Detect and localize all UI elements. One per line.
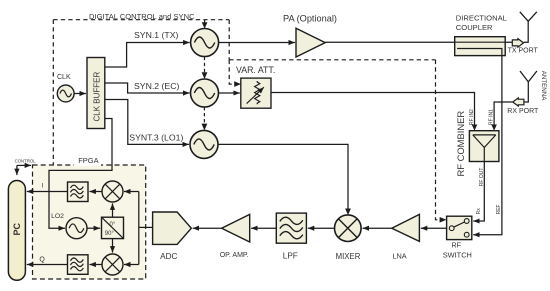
amplifier LNA	[392, 214, 420, 241]
svg-text:VAR. ATT.: VAR. ATT.	[236, 65, 275, 75]
dashed sync SYN.2 to SYNT.3	[203, 107, 205, 124]
dashed digital control bus left edge	[52, 20, 54, 165]
TX PORT arrow	[512, 39, 523, 48]
wire control PC to FPGA	[17, 164, 31, 166]
arrow into VAR ATT control	[234, 81, 241, 87]
svg-text:MIXER: MIXER	[336, 252, 361, 261]
dashed sync SYN.1 to SYN.2	[204, 57, 206, 73]
svg-text:90°: 90°	[105, 231, 115, 237]
mixer MIXER	[335, 215, 362, 242]
wire phase to mixer I	[112, 203, 114, 217]
svg-text:ADC: ADC	[160, 252, 177, 261]
ADC converter	[153, 212, 192, 244]
RX PORT arrow	[513, 98, 524, 106]
wire LNA to mixer	[363, 227, 392, 229]
dashed stub into SYN.1	[204, 20, 206, 23]
wire op amp to ADC	[193, 227, 222, 229]
amplifier OP. AMP.	[222, 214, 250, 242]
wire SYN.1 to PA	[219, 42, 295, 44]
wire ADC into FPGA	[139, 226, 153, 228]
FPGA label background	[74, 157, 101, 167]
synthesizer SYN.1 (TX)	[191, 29, 219, 57]
wire branch to mixer Q	[124, 264, 139, 266]
svg-text:LO2: LO2	[51, 213, 64, 220]
wire FPGA branch vertical	[138, 192, 140, 265]
RX antenna	[520, 71, 537, 82]
amplifier PA	[296, 28, 325, 57]
arrow into combiner RF IN1	[491, 125, 497, 131]
wire mixer Q to filter Q	[89, 264, 101, 266]
svg-text:RF OUT: RF OUT	[479, 168, 485, 187]
dashed bus vertical to RF switch	[436, 60, 441, 220]
svg-text:SWITCH: SWITCH	[443, 250, 472, 259]
wire mixer to LPF	[308, 227, 335, 229]
wire RX port to combiner RF IN1	[494, 102, 513, 126]
wire buffer to SYN.1	[105, 43, 190, 68]
RF switch	[447, 216, 472, 239]
svg-text:DIGITAL CONTROL and SYNC: DIGITAL CONTROL and SYNC	[89, 12, 195, 21]
wire mixer I to filter I	[89, 191, 101, 193]
svg-text:SYNT.3 (LO1): SYNT.3 (LO1)	[129, 132, 183, 142]
clock source CLK	[57, 85, 74, 102]
wire LO2 to phase splitter	[87, 227, 100, 229]
mixer I	[102, 181, 123, 202]
dashed bus corner down to y60	[228, 20, 230, 60]
arrow into SYNT.3 top	[202, 124, 208, 131]
svg-text:CONTROL: CONTROL	[15, 159, 37, 164]
arrow into mixer top	[345, 209, 351, 216]
svg-text:PC: PC	[12, 222, 22, 235]
arrow into RF switch control	[440, 217, 447, 223]
filter I	[68, 182, 89, 202]
wire phase to mixer Q	[112, 239, 114, 253]
wire filter I to PC	[27, 191, 68, 193]
svg-text:RF COMBINER: RF COMBINER	[455, 111, 466, 177]
arrow into combiner RF IN2	[472, 125, 478, 131]
directional coupler	[455, 37, 506, 56]
wire PA to TX port through coupler	[325, 41, 512, 43]
svg-text:CLK BUFFER: CLK BUFFER	[92, 71, 101, 121]
arrow into SYN.1 top	[202, 22, 208, 28]
wire switch to LNA	[421, 227, 447, 229]
RF combiner	[469, 131, 499, 162]
computer PC	[8, 181, 25, 281]
wire SYNT.3 LO1 to mixer	[218, 144, 348, 209]
mixer Q	[102, 254, 123, 275]
arrow into SYN.2 top	[202, 72, 208, 79]
svg-text:DIRECTIONAL: DIRECTIONAL	[456, 14, 507, 23]
wire coupled line REF to switch	[457, 49, 502, 235]
wire filter Q to PC	[27, 264, 68, 266]
dashed digital control bus top edge	[53, 19, 229, 21]
wire SYN.2 to VAR ATT	[219, 92, 240, 94]
svg-text:COUPLER: COUPLER	[456, 23, 493, 32]
synthesizer SYN.2 (EC)	[191, 79, 219, 107]
svg-text:RF IN2: RF IN2	[469, 109, 475, 125]
dashed bus horizontal y60	[229, 59, 435, 61]
wire VAR ATT to combiner RF IN2	[271, 93, 475, 126]
svg-text:Q: Q	[39, 257, 45, 264]
low pass filter LPF	[276, 213, 306, 243]
svg-text:LNA: LNA	[392, 252, 406, 261]
wire buffer to SYN.2	[105, 83, 190, 93]
svg-text:CLK: CLK	[57, 74, 71, 81]
wire control down into PC	[16, 165, 18, 175]
svg-text:LPF: LPF	[283, 251, 298, 260]
TX antenna	[520, 12, 537, 21]
variable attenuator VAR. ATT.	[241, 78, 271, 108]
FPGA box	[33, 165, 146, 279]
wire TX antenna stem	[524, 21, 529, 42]
svg-text:REF: REF	[496, 204, 502, 214]
svg-text:FPGA: FPGA	[78, 156, 98, 165]
svg-text:0°: 0°	[110, 222, 116, 228]
svg-text:RX PORT: RX PORT	[507, 108, 539, 115]
synthesizer SYNT.3 (LO1)	[190, 130, 218, 158]
wire branch to mixer I	[124, 191, 139, 193]
svg-text:TX PORT: TX PORT	[508, 48, 539, 55]
svg-text:RF IN1: RF IN1	[489, 109, 495, 125]
svg-text:Rx: Rx	[476, 208, 482, 215]
phase splitter 0/90	[102, 217, 124, 238]
wire RX antenna stem	[524, 82, 528, 102]
wire buffer to LO2	[49, 119, 112, 229]
wire LPF to op amp	[251, 227, 276, 229]
filter Q	[68, 255, 89, 274]
svg-text:OP. AMP.: OP. AMP.	[220, 252, 249, 259]
svg-text:I: I	[42, 183, 44, 190]
dashed branch to VAR ATT control	[229, 60, 233, 84]
clock buffer box	[87, 58, 105, 129]
wire combiner RF OUT to switch	[473, 162, 484, 222]
svg-text:RF: RF	[451, 240, 461, 249]
svg-text:SYN.1 (TX): SYN.1 (TX)	[134, 30, 179, 40]
wire buffer to SYNT.3	[105, 100, 189, 145]
wire CLK to buffer	[74, 93, 86, 95]
oscillator LO2	[66, 218, 87, 239]
svg-text:PA (Optional): PA (Optional)	[283, 14, 337, 24]
svg-text:SYN.2 (EC): SYN.2 (EC)	[134, 81, 179, 91]
svg-text:ANTENNA: ANTENNA	[540, 71, 547, 101]
